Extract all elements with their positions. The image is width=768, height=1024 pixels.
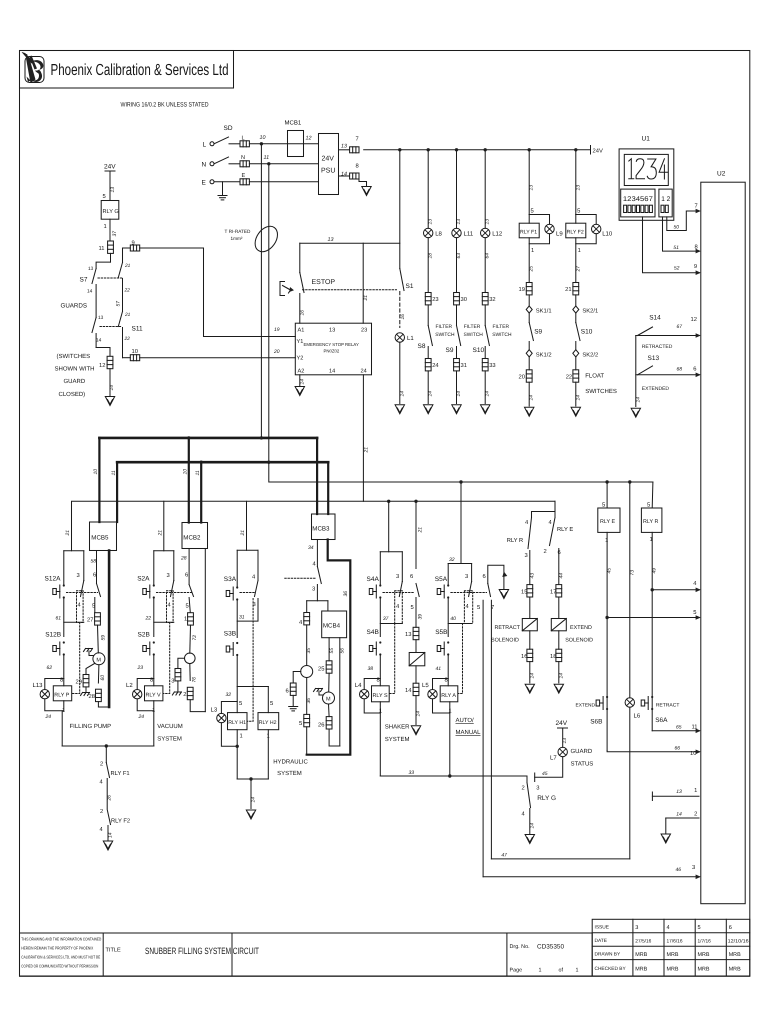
wire fuse30 to switch (456, 305, 458, 326)
wire right branch bottom (122, 328, 124, 358)
shaker aux ground (411, 726, 420, 735)
fuse 3 (175, 669, 181, 681)
junction common (249, 777, 252, 780)
svg-text:14: 14 (300, 379, 306, 385)
linkage dotted to S3 (285, 577, 316, 579)
relay coil RLY F2 (566, 223, 586, 238)
SECTION: mains input (202, 120, 372, 463)
wire contact to ground (107, 826, 109, 841)
svg-text:1 2: 1 2 (661, 196, 670, 203)
svg-text:L: L (203, 142, 207, 149)
fuse 23 (425, 293, 431, 305)
svg-text:23: 23 (137, 665, 144, 671)
hyd contact blade (317, 567, 321, 584)
wire contact to ground (529, 809, 531, 834)
toroid ellipse (250, 222, 282, 256)
svg-text:2: 2 (100, 808, 103, 815)
wire loop to wire33 (449, 713, 451, 776)
arrow pin 12 (696, 333, 701, 338)
svg-text:25: 25 (318, 666, 324, 673)
wire fuse29 to chassis gnd (85, 687, 87, 692)
svg-text:11: 11 (99, 246, 105, 252)
svg-text:21: 21 (418, 527, 424, 534)
U1 keypad box right (659, 189, 672, 217)
linkage dotted (67, 592, 83, 594)
L4 loop top (364, 679, 380, 690)
SECTION: guards column top-left (55, 164, 296, 406)
svg-text:S2B: S2B (138, 632, 150, 639)
linkage dotted to S2 (175, 592, 192, 594)
wire loop to bottom bus (153, 711, 155, 746)
wire to coil loop (447, 655, 449, 686)
svg-text:14: 14 (485, 391, 491, 397)
SECTION: vacuum selector S2 (126, 551, 183, 746)
junction L drop (260, 142, 263, 145)
L3 loop top (221, 702, 237, 714)
wire 46 loop to U2 pin3 (483, 876, 699, 878)
dashed box 4 (77, 591, 84, 623)
svg-text:5: 5 (531, 209, 534, 215)
wire to SK1/2 (528, 342, 530, 350)
svg-text:N: N (241, 155, 245, 161)
fuse 6 (290, 683, 296, 695)
S7 contact a blade (92, 269, 96, 284)
linkage dotted (157, 592, 173, 594)
S4 block bottom (380, 623, 402, 625)
svg-text:11: 11 (692, 725, 698, 731)
wire between contacts left (95, 285, 97, 318)
svg-text:6: 6 (729, 925, 732, 931)
svg-text:SOLENOID: SOLENOID (491, 638, 519, 644)
breaker MCB4 (322, 611, 347, 638)
wire to contact F1 (105, 746, 107, 763)
wire to fuse 27 (94, 598, 96, 613)
svg-text:20: 20 (519, 374, 525, 381)
svg-text:STATUS: STATUS (571, 761, 594, 768)
svg-text:S4A: S4A (367, 576, 380, 583)
fuse 30 (454, 293, 460, 305)
earth stub (222, 182, 224, 196)
svg-text:21: 21 (124, 263, 131, 269)
fuse 15 (527, 585, 533, 597)
svg-text:L8: L8 (435, 231, 442, 238)
disclaimer text (21, 937, 101, 969)
svg-text:SYSTEM: SYSTEM (157, 736, 182, 743)
svg-text:AUTO/: AUTO/ (456, 717, 475, 724)
junction loop (236, 745, 239, 748)
wire to solenoid (558, 597, 560, 619)
bus 2 drop to MCB5 (116, 462, 118, 522)
svg-text:5: 5 (577, 209, 580, 215)
elbow to fuse 12 (96, 348, 110, 356)
svg-text:RLY R: RLY R (507, 538, 524, 544)
svg-text:4: 4 (100, 780, 104, 786)
relay coil RLY H2 (258, 713, 279, 730)
wire L8 to fuse 23 (427, 238, 429, 293)
svg-text:21: 21 (363, 447, 369, 454)
lamp L12 (481, 228, 490, 237)
pin1 stub tick (651, 792, 653, 801)
guards ground (105, 397, 114, 406)
extend ground (554, 684, 563, 693)
S2 block bottom (154, 621, 174, 623)
wire to motor (97, 625, 100, 653)
svg-text:13: 13 (456, 219, 462, 225)
7seg digit 1 (629, 159, 634, 179)
svg-text:RETRACT: RETRACT (495, 625, 521, 631)
svg-text:16: 16 (521, 653, 527, 660)
svg-text:SK1/1: SK1/1 (536, 308, 552, 315)
wire loop to bottom bus (61, 711, 63, 746)
svg-text:MCB5: MCB5 (91, 535, 109, 542)
fuse 17 (556, 585, 562, 597)
wire 13 top (300, 242, 400, 244)
svg-text:RLY G: RLY G (103, 209, 119, 215)
U2 pin2 wire (666, 817, 699, 819)
SECTION: pump bottom rail and RLY F output contacts (62, 744, 154, 850)
svg-text:RLY F1: RLY F1 (520, 229, 537, 235)
svg-text:S3B: S3B (224, 631, 236, 638)
svg-text:26: 26 (318, 722, 324, 729)
svg-text:1: 1 (240, 734, 243, 740)
wire to S9 float contact (528, 313, 530, 322)
bus 1 drop to MCB5 (98, 438, 100, 522)
svg-text:RLY F2: RLY F2 (567, 229, 584, 235)
junction on RLY R col (651, 588, 654, 591)
relay coil RLY V (145, 686, 163, 701)
wire to node (236, 655, 238, 713)
drg cell divider (506, 933, 508, 976)
S10 float contact blade (576, 323, 580, 341)
svg-text:14: 14 (428, 391, 434, 397)
disclaimer cell divider (102, 933, 104, 976)
button S4B (369, 641, 381, 655)
svg-text:4: 4 (100, 827, 104, 833)
elbow to terminal 10 (123, 357, 131, 359)
svg-text:E: E (242, 173, 246, 179)
SECTION: auto manual selector S5 (422, 482, 487, 776)
SECTION: counter display U1 (619, 136, 674, 221)
svg-text:14: 14 (529, 823, 535, 829)
wire solenoid to fuse18 (558, 631, 560, 649)
svg-text:MRB: MRB (667, 952, 679, 958)
wire switch to fuse 33 (484, 347, 486, 359)
lamp L4 (360, 690, 369, 699)
svg-text:13: 13 (98, 315, 104, 321)
relay coil RLY R (641, 508, 662, 532)
lamp L9 (545, 224, 554, 233)
button S3A (226, 586, 238, 600)
svg-text:19: 19 (519, 286, 525, 293)
wireA drop to S5 (460, 482, 462, 564)
svg-text:6: 6 (693, 366, 696, 373)
PSU U box (319, 134, 339, 195)
svg-text:1234567: 1234567 (623, 196, 653, 203)
button S4A (369, 584, 381, 598)
wire solenoid to fuse16 (529, 631, 531, 649)
N input circle (210, 162, 214, 166)
S12 left wire mid (63, 598, 65, 637)
S14 contact blade (638, 327, 653, 336)
SECTION: shaker aux contact and coil column (405, 573, 425, 735)
svg-text:14: 14 (341, 172, 347, 178)
svg-text:RLY H2: RLY H2 (259, 720, 277, 726)
wire fuse20 to ground (528, 382, 530, 406)
aux earth arrow (499, 590, 508, 599)
SECTION: distribution buses (65, 436, 653, 568)
svg-text:5: 5 (270, 701, 273, 707)
svg-text:24: 24 (432, 362, 439, 369)
svg-text:S3A: S3A (224, 576, 237, 583)
svg-text:SHAKER: SHAKER (385, 724, 410, 731)
SECTION: U1 to U2 wires (643, 203, 701, 275)
svg-text:22: 22 (124, 288, 131, 294)
wire 51 to U2 pin8 (663, 217, 700, 251)
bus 2 thick (117, 461, 328, 464)
S11 linkage dotted (100, 326, 122, 328)
motor to fuse 28 (97, 665, 100, 683)
svg-text:68: 68 (677, 367, 683, 373)
dashed link to RLY S (390, 624, 395, 694)
wire 33 (380, 775, 527, 777)
ground of pin 8 (362, 187, 371, 196)
breaker MCB2 (182, 523, 208, 549)
wire coil to fuse 14 (415, 666, 417, 683)
SECTION: S5 aux contact (477, 565, 509, 877)
S9 float contact blade (529, 323, 533, 341)
svg-text:S5A: S5A (435, 576, 448, 583)
vac contact blade (189, 585, 193, 597)
S7/S11 linkage dotted top (98, 277, 122, 279)
MCB2 right leg (204, 549, 206, 712)
svg-text:49: 49 (652, 568, 658, 574)
fuse 27 (95, 613, 101, 625)
filter col S10 wire top (484, 150, 486, 229)
svg-text:16: 16 (400, 314, 406, 320)
svg-text:14: 14 (399, 391, 405, 397)
svg-text:13: 13 (110, 187, 116, 193)
fuse 22 (573, 370, 579, 382)
wire to coil loop (379, 655, 381, 686)
fuse 5 (304, 714, 310, 726)
RLY G ground (525, 835, 534, 844)
svg-text:PN0Z02: PN0Z02 (324, 349, 340, 354)
svg-text:18: 18 (428, 253, 434, 259)
SECTION: RLY F1 branch and float switch chain 1 (519, 150, 564, 417)
svg-text:MRB: MRB (635, 952, 647, 958)
svg-text:61: 61 (56, 616, 62, 622)
bus 1 drop to MCB2 (188, 438, 190, 523)
svg-text:3: 3 (167, 572, 170, 579)
wire estop to A1 (299, 294, 301, 324)
S7 contact c blade (118, 263, 122, 278)
svg-text:L12: L12 (492, 231, 503, 238)
SECTION: circuit breakers (90, 514, 336, 551)
wire contact down (415, 598, 417, 628)
estop column wire (299, 243, 301, 272)
S9 switch blade (457, 326, 461, 346)
svg-text:CALIBRATION & SERVICES LTD, AN: CALIBRATION & SERVICES LTD, AND MUST NOT… (21, 955, 100, 960)
svg-text:6: 6 (483, 573, 486, 580)
L5 loop top (433, 679, 449, 690)
svg-text:CD35350: CD35350 (537, 944, 564, 951)
svg-text:36: 36 (343, 591, 349, 597)
fuse 19 (526, 283, 532, 295)
pump return elbow (98, 702, 109, 707)
svg-text:S12A: S12A (45, 576, 62, 583)
fuse 32 (482, 293, 488, 305)
SECTION: guard status lamp (535, 720, 594, 792)
svg-text:8: 8 (377, 677, 380, 684)
svg-text:MRB: MRB (729, 952, 741, 958)
svg-text:SK2/1: SK2/1 (582, 308, 598, 315)
svg-text:3: 3 (312, 586, 315, 593)
wire B horizontal (72, 501, 556, 551)
svg-text:8: 8 (60, 677, 63, 684)
svg-text:37: 37 (383, 616, 389, 622)
S8 ground (424, 405, 433, 414)
wire loop to wire33 (379, 713, 381, 776)
S9 ground (452, 405, 461, 414)
wire switch to fuse 24 (427, 347, 429, 359)
svg-text:36: 36 (306, 698, 312, 704)
S2 left wire mid (153, 598, 155, 637)
svg-text:1/7/16: 1/7/16 (698, 939, 712, 945)
svg-text:10: 10 (260, 135, 266, 141)
wire down (562, 728, 564, 747)
S5 block top (448, 563, 471, 565)
SECTION: retract solenoid chain (491, 573, 537, 693)
svg-text:21: 21 (65, 530, 71, 537)
terminal 10 (130, 355, 139, 361)
contact 3 tick (534, 773, 536, 782)
fuse 25 (326, 661, 332, 673)
valve to fuse 5 (306, 678, 308, 715)
wireB junction aux (414, 500, 417, 503)
fuse 21 (573, 283, 579, 295)
connector SK2/1 (573, 306, 579, 313)
svg-text:1mm²: 1mm² (231, 236, 243, 241)
connector SK1/2 (526, 350, 532, 357)
S1 dashed wire to L1 (399, 292, 401, 328)
H1 wire down (236, 730, 238, 779)
node horizontal (307, 600, 328, 602)
lamp column L6 (629, 482, 631, 698)
svg-text:1: 1 (184, 617, 187, 623)
svg-text:22: 22 (124, 336, 131, 342)
svg-text:VACUUM: VACUUM (157, 723, 183, 730)
wire contact b down (95, 334, 97, 348)
svg-text:46: 46 (676, 867, 682, 873)
wire to fuse15 col (529, 551, 531, 585)
svg-text:21: 21 (240, 530, 246, 537)
node horizontal (237, 686, 268, 688)
MCB4 feed from node (327, 601, 329, 611)
lamp L6 (625, 698, 634, 707)
svg-text:DRAWN BY: DRAWN BY (595, 952, 621, 958)
breaker MCB3 (312, 514, 336, 540)
svg-text:CLOSED): CLOSED) (59, 391, 86, 398)
fuse 2 (187, 687, 193, 699)
RLY H2 drop (267, 687, 269, 713)
svg-text:(SWITCHES: (SWITCHES (57, 353, 91, 360)
fuse 29 (83, 675, 89, 687)
svg-text:13: 13 (88, 266, 94, 272)
svg-text:5: 5 (239, 701, 242, 707)
svg-text:5: 5 (698, 925, 701, 931)
svg-text:ISSUE: ISSUE (595, 925, 609, 931)
svg-text:8: 8 (695, 243, 698, 250)
svg-text:1: 1 (104, 224, 107, 230)
SECTION: extend solenoid chain (550, 573, 593, 693)
MCB4 left leg (328, 638, 330, 661)
junction S1 (398, 148, 401, 151)
wire 50 to U2 pin7 (667, 211, 700, 231)
S1 ground (395, 405, 404, 414)
svg-text:MANUAL: MANUAL (456, 729, 482, 736)
svg-text:14: 14 (456, 391, 462, 397)
svg-text:FLOAT: FLOAT (585, 373, 604, 380)
svg-text:4: 4 (396, 604, 400, 610)
svg-text:37: 37 (112, 231, 118, 237)
svg-text:24: 24 (45, 714, 52, 720)
wire to coil loop (63, 655, 65, 686)
filter col S8 wire top (427, 150, 429, 229)
fuse 33 (482, 359, 488, 371)
svg-text:M: M (96, 658, 101, 664)
svg-text:CHECKED BY: CHECKED BY (595, 966, 627, 972)
wire to ground (250, 779, 252, 809)
U1 display window (624, 154, 668, 185)
svg-text:L10: L10 (602, 231, 613, 238)
S2 left wire upper (153, 551, 155, 586)
pointer arrowhead (502, 572, 507, 578)
keypad right squares (661, 205, 668, 212)
svg-text:12: 12 (99, 362, 105, 369)
fuse 31 (454, 359, 460, 371)
svg-text:U2: U2 (717, 171, 726, 178)
svg-text:72: 72 (192, 635, 198, 641)
wire 4 to U2 (652, 589, 699, 591)
wire to fuse 20 (528, 357, 530, 370)
wire N terminal to PSU (249, 163, 318, 165)
svg-text:76: 76 (192, 677, 198, 683)
svg-text:38: 38 (368, 666, 374, 672)
S4 right contact blade (401, 552, 403, 582)
arrow pin 9 (696, 270, 701, 275)
bottom rail (62, 745, 154, 747)
svg-text:23: 23 (361, 328, 367, 334)
svg-text:11: 11 (111, 470, 117, 475)
svg-text:57: 57 (116, 301, 122, 307)
junction RLY F2 (574, 148, 577, 151)
svg-text:34: 34 (308, 545, 314, 551)
aux 6 contact top (488, 565, 504, 588)
svg-text:14: 14 (575, 395, 581, 401)
wire between contacts (106, 779, 108, 809)
wire fuse22 to ground (575, 382, 577, 406)
wire fuse33 to ground (484, 371, 486, 404)
svg-text:24V: 24V (104, 164, 116, 171)
button S12B (53, 641, 65, 655)
wire to hyd motor (328, 673, 330, 692)
junction N drop (267, 162, 270, 165)
svg-text:14: 14 (529, 673, 535, 679)
svg-text:14: 14 (635, 397, 641, 403)
svg-text:SYSTEM: SYSTEM (277, 770, 302, 777)
branch bottom (529, 234, 549, 244)
wire to coil loop (153, 655, 155, 686)
